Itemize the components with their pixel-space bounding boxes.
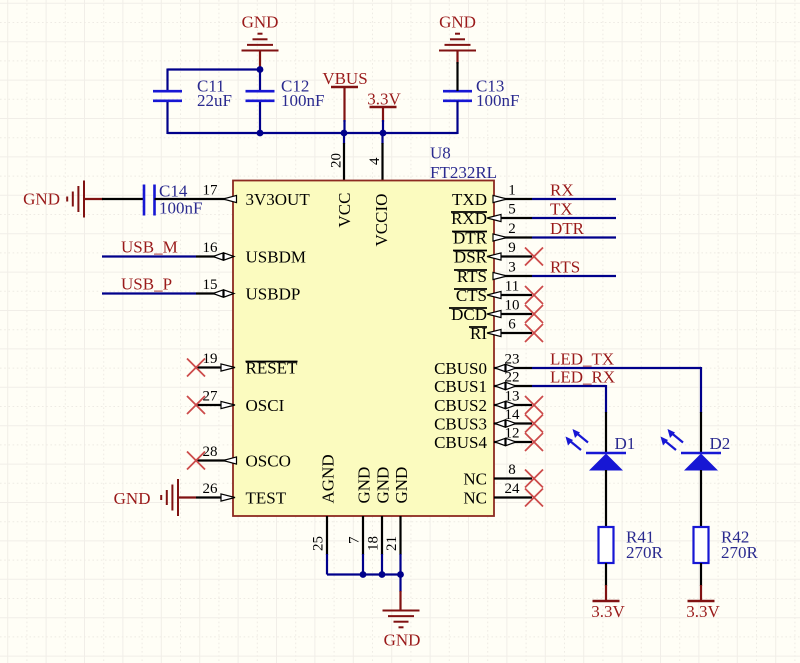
- svg-text:18: 18: [366, 536, 382, 551]
- svg-text:3.3V: 3.3V: [686, 602, 720, 621]
- svg-text:LED_TX: LED_TX: [550, 350, 614, 369]
- svg-text:CBUS4: CBUS4: [434, 433, 487, 452]
- svg-text:VBUS: VBUS: [322, 69, 367, 88]
- svg-text:GND: GND: [439, 13, 476, 32]
- svg-text:3V3OUT: 3V3OUT: [246, 190, 311, 209]
- svg-text:TEST: TEST: [246, 489, 287, 508]
- svg-text:100nF: 100nF: [159, 199, 202, 218]
- svg-text:2: 2: [508, 221, 516, 237]
- svg-text:6: 6: [508, 317, 516, 333]
- svg-text:270R: 270R: [626, 543, 664, 562]
- svg-text:CBUS3: CBUS3: [434, 415, 487, 434]
- svg-text:GND: GND: [242, 13, 279, 32]
- svg-text:22uF: 22uF: [197, 91, 232, 110]
- svg-text:LED_RX: LED_RX: [550, 368, 615, 387]
- svg-text:GND: GND: [23, 190, 60, 209]
- svg-text:20: 20: [329, 153, 345, 168]
- svg-text:OSCI: OSCI: [246, 396, 285, 415]
- svg-text:3: 3: [508, 260, 516, 276]
- svg-text:GND: GND: [392, 467, 411, 504]
- svg-text:TXD: TXD: [452, 190, 487, 209]
- svg-text:VCCIO: VCCIO: [372, 194, 391, 247]
- svg-text:USB_M: USB_M: [121, 238, 178, 257]
- svg-text:GND: GND: [374, 467, 393, 504]
- svg-text:15: 15: [203, 277, 218, 293]
- svg-text:10: 10: [505, 298, 520, 314]
- svg-text:3.3V: 3.3V: [367, 90, 401, 109]
- svg-text:5: 5: [508, 202, 516, 218]
- svg-text:17: 17: [203, 183, 219, 199]
- svg-text:NC: NC: [463, 489, 487, 508]
- svg-text:DTR: DTR: [550, 219, 585, 238]
- svg-text:11: 11: [505, 279, 519, 295]
- svg-text:270R: 270R: [721, 543, 759, 562]
- svg-text:24: 24: [505, 481, 521, 497]
- svg-text:D2: D2: [710, 434, 731, 453]
- svg-text:GND: GND: [384, 631, 421, 650]
- svg-text:3.3V: 3.3V: [591, 602, 625, 621]
- svg-text:25: 25: [311, 536, 327, 551]
- svg-text:1: 1: [508, 183, 516, 199]
- svg-text:100nF: 100nF: [281, 91, 324, 110]
- svg-text:NC: NC: [463, 470, 487, 489]
- svg-text:TX: TX: [550, 200, 573, 219]
- svg-text:AGND: AGND: [319, 454, 338, 503]
- svg-text:GND: GND: [114, 489, 151, 508]
- svg-text:USBDM: USBDM: [246, 248, 306, 267]
- svg-text:CBUS1: CBUS1: [434, 377, 487, 396]
- svg-text:16: 16: [203, 240, 219, 256]
- svg-text:CBUS0: CBUS0: [434, 359, 487, 378]
- svg-text:GND: GND: [355, 467, 374, 504]
- svg-text:U8: U8: [430, 144, 451, 163]
- svg-text:21: 21: [384, 536, 400, 551]
- svg-text:7: 7: [347, 536, 363, 544]
- svg-text:USBDP: USBDP: [246, 285, 301, 304]
- svg-text:100nF: 100nF: [476, 91, 519, 110]
- svg-text:FT232RL: FT232RL: [430, 163, 497, 182]
- svg-text:VCC: VCC: [335, 193, 354, 228]
- svg-text:RX: RX: [550, 181, 574, 200]
- svg-text:OSCO: OSCO: [246, 452, 291, 471]
- svg-text:26: 26: [203, 481, 219, 497]
- svg-text:4: 4: [367, 157, 383, 165]
- svg-text:8: 8: [508, 462, 516, 478]
- svg-text:USB_P: USB_P: [121, 275, 172, 294]
- svg-text:CBUS2: CBUS2: [434, 396, 487, 415]
- svg-text:9: 9: [508, 240, 516, 256]
- svg-text:RTS: RTS: [550, 258, 580, 277]
- svg-text:D1: D1: [615, 434, 636, 453]
